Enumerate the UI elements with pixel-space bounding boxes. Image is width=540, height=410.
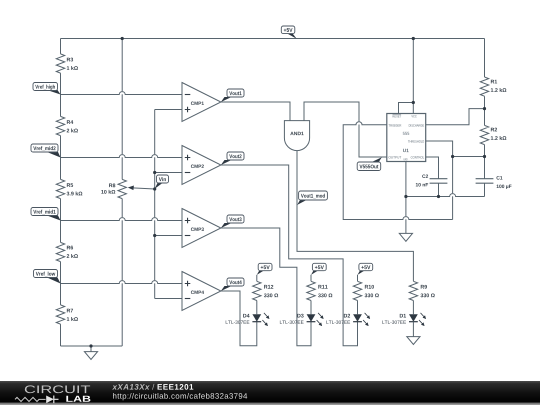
wire Vin stub to CMP2 - input	[155, 172, 182, 174]
wire Vout2 to D2 cathode	[221, 165, 358, 346]
wire 555 control to C2	[426, 157, 439, 179]
wire R11 to D3	[310, 301, 312, 315]
power +5V flag (R10)	[358, 271, 365, 275]
power +5V flag (top rail)	[287, 33, 297, 38]
wire threshold node to R2 bottom	[453, 156, 485, 158]
wire AND1 output Vout1_mod to R9	[297, 151, 413, 282]
label R7 value	[67, 309, 70, 313]
label D3	[297, 314, 300, 318]
resistor R12	[253, 281, 261, 300]
footer text	[112, 385, 117, 389]
wire R10 to D2	[357, 301, 359, 315]
LED D1	[409, 314, 418, 322]
LED D4	[252, 314, 261, 322]
op-amp comparator CMP3	[182, 209, 221, 248]
wire left reference ladder rail	[60, 39, 62, 54]
wire Vin stub to CMP4 - input	[155, 298, 182, 300]
wire R9 to D1	[412, 301, 414, 315]
wire bottom ladder to ground	[61, 345, 123, 347]
wire Vout3 to D3 cathode	[221, 228, 311, 346]
label R2 value	[491, 128, 494, 132]
label R10 value	[365, 285, 368, 289]
node Vin flag	[155, 183, 163, 189]
resistor R5	[56, 179, 64, 198]
op-amp comparator CMP1	[182, 83, 221, 122]
label R4 value	[67, 120, 70, 124]
node Vout1_mod flag	[297, 200, 306, 205]
resistor R10	[353, 281, 361, 300]
node Vref_mid2 flag	[47, 152, 61, 158]
resistor R7	[56, 305, 64, 324]
wire Vin rail	[154, 110, 156, 299]
resistor R6	[56, 242, 64, 261]
wire ladder segment	[60, 136, 62, 180]
node Vref_mid1 flag	[47, 216, 61, 221]
label C2 value	[422, 174, 425, 177]
capacitor C1	[476, 178, 494, 180]
wire 555 discharge to R1/R2 node	[426, 109, 485, 125]
wire 555 threshold vertical	[426, 141, 453, 220]
label R5 value	[67, 183, 70, 187]
resistor R4	[56, 116, 64, 135]
label R3 value	[67, 58, 70, 62]
wire node Vref_low to CMP4 + input	[61, 281, 183, 284]
wire ladder segment	[60, 262, 62, 305]
resistor R3	[56, 54, 64, 73]
wire gnd bus under 555	[406, 194, 485, 197]
node Vout2 flag	[221, 160, 232, 165]
wire right rail low	[484, 145, 486, 157]
wire right rail top	[484, 39, 486, 78]
label R11 value	[318, 285, 321, 289]
op-amp comparator CMP4	[182, 272, 221, 311]
wire node Vref_mid1 to CMP3 + input	[61, 218, 183, 221]
node Vout3 flag	[221, 223, 232, 228]
label R6 value	[67, 246, 70, 250]
wire Vout1 to AND1 left input	[221, 102, 290, 121]
wire 555 vcc to +5V rail	[412, 39, 414, 114]
CircuitLab logo	[25, 385, 35, 393]
label R1 value	[491, 80, 494, 84]
potentiometer R8 body	[118, 179, 126, 198]
label R8 value	[109, 184, 112, 188]
junction dots	[121, 37, 124, 40]
wire right rail mid	[484, 96, 486, 125]
wire Vin stub to CMP1 + input	[155, 109, 182, 111]
wire 555 output to AND1 right input	[304, 102, 387, 157]
resistor R1	[480, 77, 488, 96]
wire D1 to ground	[412, 322, 414, 337]
label C1 value	[497, 176, 500, 179]
label D2	[344, 314, 347, 318]
wire potentiometer rail top	[121, 39, 123, 180]
wire R8 wiper arrow	[133, 188, 155, 189]
wire ladder segment	[60, 73, 62, 116]
node Vref_high flag	[47, 90, 61, 95]
wire +5V stub R10	[357, 275, 359, 282]
ground under D1	[407, 337, 420, 345]
power +5V flag (R11)	[311, 271, 318, 275]
label D4	[243, 314, 246, 318]
LED D3	[307, 314, 316, 322]
node V555Out flag	[371, 157, 382, 162]
wire 555 reset-vcc tie	[399, 103, 414, 114]
node Vout1 flag	[221, 97, 232, 102]
node Vref_low flag	[47, 278, 61, 284]
wire +5V stub R11	[310, 275, 312, 282]
wire 555 trigger-threshold tie	[343, 122, 452, 220]
wire R2 to C1	[484, 157, 486, 179]
AND gate AND1	[284, 121, 309, 151]
ground under ladder	[90, 346, 92, 352]
wire ladder bottom segment	[60, 324, 62, 346]
power +5V flag (R12)	[257, 271, 264, 275]
capacitor C2	[430, 178, 448, 180]
wire node Vref_mid2 to CMP2 + input	[61, 155, 183, 158]
wire 555 gnd pin vertical	[405, 162, 407, 234]
LED D2	[353, 314, 362, 322]
label R12 value	[264, 285, 267, 289]
ground under 555	[399, 233, 412, 241]
label R9 value	[421, 285, 424, 289]
resistor R9	[409, 281, 417, 300]
555 timer U1	[387, 114, 426, 162]
wire Vout4 to D4 cathode	[221, 291, 257, 346]
wire hop masks	[121, 91, 124, 94]
resistor R2	[480, 125, 488, 144]
wire C1 bottom stub	[484, 183, 486, 196]
wire R12 to D4	[256, 301, 258, 315]
resistor R11	[307, 281, 315, 300]
label D1	[400, 314, 403, 318]
wire Vin stub to CMP3 - input	[155, 235, 182, 237]
wire top +5V rail	[61, 38, 485, 40]
wire C2 bottom stub	[438, 183, 440, 196]
op-amp comparator CMP2	[182, 146, 221, 185]
wire +5V stub R12	[256, 275, 258, 282]
node Vout4 flag	[221, 286, 232, 291]
wire potentiometer rail bottom	[121, 199, 123, 346]
wire ladder segment	[60, 199, 62, 243]
wire node Vref_high to CMP1 - input	[61, 92, 183, 95]
